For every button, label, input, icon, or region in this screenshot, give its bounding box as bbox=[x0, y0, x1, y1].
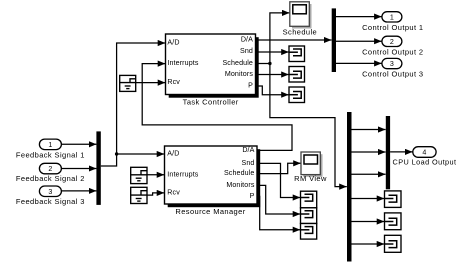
svg-text:Rcv: Rcv bbox=[167, 189, 180, 197]
wire Task Controller D/A to output Demux bbox=[256, 39, 332, 41]
mailbox block F3 bbox=[131, 187, 147, 203]
svg-text:Schedule: Schedule bbox=[283, 28, 317, 37]
port Outport Control Output 2 bbox=[362, 36, 423, 56]
svg-text:1: 1 bbox=[390, 13, 394, 21]
svg-text:Rcv: Rcv bbox=[167, 78, 180, 86]
svg-text:CPU Load Output: CPU Load Output bbox=[393, 158, 457, 167]
wire Resource Manager Monitors to sink S2 bbox=[257, 185, 300, 214]
wire Task Controller Monitors to sink B2 bbox=[256, 74, 289, 76]
svg-text:Interrupts: Interrupts bbox=[167, 170, 198, 178]
svg-text:D/A: D/A bbox=[242, 146, 254, 154]
svg-text:Control Output 3: Control Output 3 bbox=[362, 69, 423, 78]
wire tall Demux to sink R2 bbox=[352, 221, 385, 223]
svg-text:Monitors: Monitors bbox=[226, 181, 254, 189]
wire input Mux to Task Controller A/D bbox=[101, 43, 166, 166]
wire Feedback Signal 3 to input Mux bbox=[61, 190, 96, 192]
subsystem Task Controller bbox=[166, 34, 259, 107]
sink block S2 bbox=[301, 208, 317, 224]
svg-text:Resource Manager: Resource Manager bbox=[175, 207, 245, 216]
subsystem Resource Manager bbox=[165, 146, 261, 216]
sink block R3 bbox=[385, 235, 402, 252]
svg-text:2: 2 bbox=[390, 38, 394, 46]
wire Task Controller Schedule stub bbox=[256, 63, 270, 65]
wire tall Demux to sink R1 bbox=[352, 198, 385, 200]
wire Resource Manager Snd to sink S1 bbox=[257, 163, 300, 197]
svg-text:P: P bbox=[250, 192, 255, 200]
svg-text:Interrupts: Interrupts bbox=[167, 59, 198, 67]
svg-text:Feedback Signal 2: Feedback Signal 2 bbox=[16, 174, 85, 183]
mailbox block F2 bbox=[131, 167, 147, 183]
svg-text:Snd: Snd bbox=[240, 47, 253, 55]
svg-text:A/D: A/D bbox=[167, 39, 179, 47]
port Outport Control Output 1 bbox=[362, 12, 423, 32]
wire CPU Mux to CPU Load Output bbox=[390, 151, 413, 153]
port Inport Feedback Signal 3 bbox=[16, 186, 85, 206]
svg-text:1: 1 bbox=[48, 141, 52, 149]
sink block R1 bbox=[385, 191, 402, 208]
wire tall Demux to sink R3 bbox=[352, 243, 385, 245]
sink block S3 bbox=[301, 224, 317, 240]
svg-text:A/D: A/D bbox=[167, 150, 179, 158]
wire Resource Manager P to sink S3 bbox=[257, 196, 300, 229]
svg-text:3: 3 bbox=[48, 188, 52, 196]
wire mailbox F2 to Resource Manager Interrupts bbox=[147, 174, 164, 176]
CPU Mux bar bbox=[386, 116, 390, 189]
wire tall Demux to CPU Mux line 2 bbox=[352, 151, 386, 153]
svg-text:Control Output 1: Control Output 1 bbox=[362, 23, 423, 32]
svg-text:Task Controller: Task Controller bbox=[183, 98, 239, 107]
svg-text:P: P bbox=[248, 82, 253, 90]
control output Demux bar bbox=[332, 8, 336, 72]
wire tall Demux to CPU Mux line 3 bbox=[352, 173, 386, 175]
svg-text:2: 2 bbox=[48, 165, 52, 173]
port Inport Feedback Signal 1 bbox=[16, 139, 85, 159]
junction dot on A/D branch bbox=[115, 152, 118, 155]
sink block B1 bbox=[289, 46, 305, 62]
mailbox block F1 bbox=[120, 75, 136, 91]
wire Task Controller P to sink B3 bbox=[256, 86, 289, 95]
svg-text:4: 4 bbox=[422, 149, 426, 157]
port Outport CPU Load Output bbox=[393, 147, 457, 167]
wire Demux to Control Output 2 bbox=[336, 40, 382, 42]
scope Schedule bbox=[283, 2, 317, 37]
svg-text:Control Output 2: Control Output 2 bbox=[362, 48, 423, 57]
wire Schedule branch up to Schedule Scope bbox=[270, 13, 290, 64]
wire Resource Manager Schedule to RM View Scope bbox=[257, 163, 301, 173]
svg-text:Feedback Signal 1: Feedback Signal 1 bbox=[16, 151, 85, 160]
junction dot on Schedule branch bbox=[268, 62, 271, 65]
sink block R2 bbox=[385, 213, 402, 230]
port Outport Control Output 3 bbox=[362, 58, 423, 78]
input Mux bar bbox=[96, 131, 100, 205]
sink block B3 bbox=[289, 87, 305, 103]
wire Feedback Signal 1 to input Mux bbox=[61, 143, 96, 145]
svg-text:3: 3 bbox=[390, 60, 394, 68]
wire Feedback Signal 2 to input Mux bbox=[61, 168, 96, 170]
wire mailbox F1 to Task Controller Rcv bbox=[136, 82, 166, 84]
svg-text:D/A: D/A bbox=[241, 36, 253, 44]
wire Demux to Control Output 3 bbox=[336, 62, 382, 64]
svg-text:Feedback Signal 3: Feedback Signal 3 bbox=[16, 197, 85, 206]
svg-text:Monitors: Monitors bbox=[225, 70, 253, 78]
sink block S1 bbox=[301, 191, 317, 208]
wire branch to Resource Manager A/D bbox=[117, 153, 165, 155]
wire Demux to Control Output 1 bbox=[336, 16, 382, 18]
svg-text:Schedule: Schedule bbox=[224, 169, 255, 177]
wire Resource Manager D/A to Task Controller Interrupts bbox=[142, 64, 292, 151]
wire mailbox F3 to Resource Manager Rcv bbox=[147, 193, 164, 195]
svg-text:Schedule: Schedule bbox=[222, 59, 253, 67]
port Inport Feedback Signal 2 bbox=[16, 163, 85, 183]
wire tall Demux to CPU Mux line 1 bbox=[352, 129, 386, 131]
scope RM View bbox=[294, 152, 327, 183]
wire Schedule branch down to tall Demux bbox=[270, 64, 347, 187]
svg-text:RM View: RM View bbox=[294, 174, 327, 183]
svg-text:Snd: Snd bbox=[242, 159, 255, 167]
wire Task Controller Snd to sink B1 bbox=[256, 51, 289, 53]
tall Demux bar bbox=[347, 112, 352, 262]
sink block B2 bbox=[289, 67, 305, 83]
